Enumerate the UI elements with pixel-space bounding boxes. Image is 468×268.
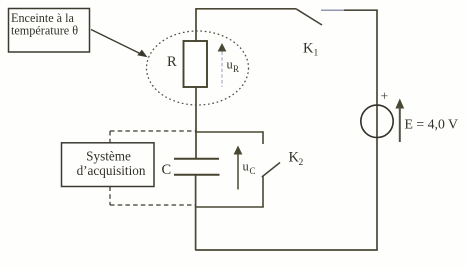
capacitor C top plate	[174, 158, 219, 160]
switch K2 blade	[262, 163, 280, 178]
wire: K2 branch top contact vertical	[262, 131, 264, 144]
wire: K2 branch lower vertical	[262, 177, 264, 208]
wire: right vertical rail	[376, 10, 378, 250]
capacitor C bottom plate	[174, 174, 220, 176]
dashed link: acquisition bottom vertical	[109, 187, 111, 206]
battery source circle E	[361, 105, 393, 137]
switch K1 blade	[296, 9, 322, 25]
wire: left vertical below capacitor to bottom rail	[195, 175, 197, 250]
dashed link: acquisition top horizontal	[110, 130, 196, 132]
arrow from label box to enclosure	[91, 30, 142, 55]
dashed link: acquisition bottom horizontal	[110, 204, 196, 206]
svg-text:C: C	[162, 162, 172, 178]
svg-text:R: R	[167, 54, 177, 70]
svg-text:d’acquisition: d’acquisition	[77, 163, 146, 178]
voltage arrow uR	[218, 43, 227, 52]
resistor R	[184, 41, 208, 87]
enclosure dotted ellipse	[147, 31, 249, 105]
svg-text:R: R	[233, 64, 239, 74]
wire: top rail left segment	[195, 8, 296, 10]
svg-text:u: u	[243, 160, 250, 174]
acquisition system box	[62, 143, 155, 187]
wire: top rail right segment	[321, 9, 344, 11]
svg-text:1: 1	[314, 49, 319, 59]
dashed link: acquisition top vertical	[109, 131, 111, 143]
svg-text:Système: Système	[86, 149, 131, 164]
wire: bottom rail	[195, 249, 378, 251]
wire: left vertical between resistor and capacitor	[195, 87, 197, 158]
wire: K2 branch top horizontal	[195, 131, 263, 133]
svg-text:température θ: température θ	[11, 24, 78, 38]
svg-text:2: 2	[299, 158, 304, 168]
wire: K2 branch bottom horizontal	[195, 206, 264, 208]
label box: Enceinte a la temperature	[9, 9, 90, 53]
svg-text:C: C	[250, 166, 256, 176]
svg-text:E = 4,0 V: E = 4,0 V	[405, 116, 459, 131]
wire: top-left vertical from resistor top to top rail	[195, 9, 197, 41]
svg-text:K: K	[303, 41, 314, 57]
svg-text:+: +	[381, 89, 389, 104]
voltage arrow E	[395, 99, 404, 109]
voltage arrow uC	[234, 146, 243, 155]
